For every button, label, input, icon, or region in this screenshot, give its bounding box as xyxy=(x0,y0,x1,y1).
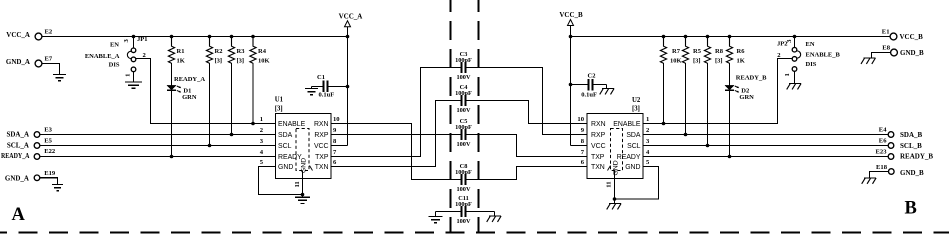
svg-text:C2: C2 xyxy=(588,72,596,79)
wire JP1 pin2 to ENABLE row xyxy=(136,59,276,124)
jumper JP1 xyxy=(123,36,148,77)
svg-text:TXP: TXP xyxy=(591,154,605,161)
svg-text:ENABLE: ENABLE xyxy=(278,121,306,128)
node GND_B right label xyxy=(900,49,924,57)
wire U1 GND net xyxy=(259,167,305,197)
op-amp U1 box xyxy=(275,97,331,179)
svg-text:100pF: 100pF xyxy=(455,124,472,131)
svg-text:[3]: [3] xyxy=(215,58,223,65)
svg-text:C1: C1 xyxy=(317,74,325,81)
svg-text:R5: R5 xyxy=(693,48,702,55)
svg-text:EN: EN xyxy=(110,42,119,49)
svg-text:READY_B: READY_B xyxy=(900,153,933,161)
resistor R4 xyxy=(250,35,270,65)
connector E5 xyxy=(34,137,52,148)
chassis ground E18 xyxy=(862,178,876,184)
junction C2 node xyxy=(569,83,573,87)
node VCC_B right label xyxy=(900,33,924,41)
node SDA_B label xyxy=(900,131,923,139)
svg-text:[3]: [3] xyxy=(632,105,640,112)
svg-text:0.1uF: 0.1uF xyxy=(319,92,335,99)
wire SCL_A row xyxy=(40,145,276,147)
svg-text:RXN: RXN xyxy=(314,121,329,128)
svg-text:A: A xyxy=(12,205,26,225)
svg-text:10: 10 xyxy=(333,116,340,123)
node SCL_B label xyxy=(900,142,922,150)
wire RXN to C8 xyxy=(331,124,461,180)
svg-text:VCC_A: VCC_A xyxy=(6,31,30,39)
wire R4 to ENABLE row xyxy=(251,63,255,125)
U2 pin numbers left xyxy=(577,116,584,166)
wire VCC_B down to U2 VCC xyxy=(571,37,588,146)
svg-text:100V: 100V xyxy=(457,218,471,225)
junction JP2 enable xyxy=(0,0,1,1)
node SDA_A label xyxy=(6,131,29,139)
resistor R3 xyxy=(228,35,245,65)
svg-text:1: 1 xyxy=(784,73,791,76)
connector E6 xyxy=(879,138,894,149)
svg-text:U1: U1 xyxy=(275,97,284,104)
node READY_B right label xyxy=(900,153,933,161)
svg-text:JP1: JP1 xyxy=(137,36,147,43)
capacitor C1 xyxy=(312,74,348,99)
node GND_A left label xyxy=(6,58,30,66)
svg-text:SDA_A: SDA_A xyxy=(6,131,29,139)
wire TXN to C4 xyxy=(331,101,461,167)
svg-text:[3]: [3] xyxy=(693,58,701,65)
ground E19 xyxy=(52,185,63,191)
svg-text:100V: 100V xyxy=(457,141,471,148)
svg-text:R8: R8 xyxy=(715,48,724,55)
label section A xyxy=(12,205,26,225)
svg-text:GND: GND xyxy=(625,164,640,171)
svg-text:1K: 1K xyxy=(737,58,745,65)
svg-text:READY: READY xyxy=(617,154,641,161)
svg-text:READY: READY xyxy=(278,154,302,161)
connector E3 xyxy=(34,127,52,138)
svg-text:E19: E19 xyxy=(44,170,56,177)
connector E22 xyxy=(34,148,56,159)
capacitor C5 xyxy=(455,118,472,148)
svg-text:VCC_B: VCC_B xyxy=(559,11,583,19)
wire C8 to TXN_B xyxy=(466,167,587,180)
svg-text:10: 10 xyxy=(577,116,584,123)
svg-text:SCL: SCL xyxy=(278,143,292,150)
capacitor C3 xyxy=(455,51,472,81)
connector E19 xyxy=(34,170,56,181)
wire C5 to TXP_B xyxy=(466,135,587,157)
wire SDA_B row xyxy=(643,134,888,136)
wire R6 to LED xyxy=(729,63,731,85)
svg-text:100pF: 100pF xyxy=(455,57,472,64)
svg-text:10K: 10K xyxy=(258,58,270,65)
ground C1 xyxy=(305,89,318,95)
svg-text:VCC_B: VCC_B xyxy=(900,33,924,41)
connector E7 xyxy=(35,56,53,67)
U1 pin numbers right xyxy=(333,116,340,166)
wire VCC_A down to U1 VCC xyxy=(331,37,348,146)
svg-text:R6: R6 xyxy=(737,48,746,55)
wire RXP to C5 xyxy=(331,134,461,136)
svg-text:E23: E23 xyxy=(876,149,888,156)
svg-text:GRN: GRN xyxy=(182,94,197,101)
svg-text:E4: E4 xyxy=(879,127,887,134)
svg-text:R3: R3 xyxy=(237,48,246,55)
junction VCC_A rail xyxy=(346,35,350,39)
svg-text:RXP: RXP xyxy=(314,132,329,139)
svg-text:RXN: RXN xyxy=(591,121,606,128)
junction C1 node xyxy=(346,85,350,89)
svg-text:R7: R7 xyxy=(672,48,681,55)
chassis ground U2 xyxy=(607,204,621,210)
isolation barrier line left xyxy=(450,0,452,233)
node READY_A label xyxy=(174,76,205,83)
svg-text:SCL_B: SCL_B xyxy=(900,142,922,150)
svg-text:E18: E18 xyxy=(876,164,888,171)
isolation barrier line right xyxy=(478,0,480,233)
U2 thermal pad xyxy=(608,129,623,176)
svg-text:READY_A: READY_A xyxy=(1,152,30,160)
svg-text:E22: E22 xyxy=(44,148,56,155)
connector E18 xyxy=(876,164,894,174)
wire JP2 pin1 to chassis xyxy=(794,71,796,83)
svg-text:[3]: [3] xyxy=(715,58,723,65)
svg-text:E7: E7 xyxy=(45,56,53,63)
chassis ground C2 xyxy=(600,89,614,95)
resistor R6 xyxy=(726,35,745,65)
U2 pin names left xyxy=(591,121,606,171)
wire E7 to ground xyxy=(42,64,60,75)
resistor R2 xyxy=(206,35,222,65)
svg-text:E8: E8 xyxy=(882,44,890,51)
power VCC_A xyxy=(339,12,363,36)
wire C3 to RXP_B xyxy=(466,68,587,135)
jumper JP2 xyxy=(777,37,801,77)
wire R3 to SDA row xyxy=(230,63,234,136)
wire R7 to ENABLE row xyxy=(662,63,666,125)
svg-text:VCC_A: VCC_A xyxy=(339,12,363,20)
connector E2 xyxy=(35,29,53,40)
wire E8 to chassis xyxy=(872,53,891,59)
resistor R7 xyxy=(660,35,681,65)
U2 pin numbers right xyxy=(646,116,650,166)
wire VCC_A rail A xyxy=(42,36,348,38)
power VCC_B xyxy=(559,11,583,36)
svg-text:SDA: SDA xyxy=(278,132,293,139)
svg-text:0.1uF: 0.1uF xyxy=(581,91,597,98)
svg-text:100pF: 100pF xyxy=(455,169,472,176)
U1 pin names left xyxy=(278,121,306,171)
label DIS (JP2) xyxy=(806,61,817,68)
label EN (JP1) xyxy=(110,42,119,49)
wire READY_A row xyxy=(40,156,276,158)
ground U1 xyxy=(295,197,310,203)
svg-text:100V: 100V xyxy=(457,186,471,193)
label DIS (JP1) xyxy=(109,61,120,68)
resistor R1 xyxy=(168,35,184,65)
svg-text:B: B xyxy=(905,199,917,219)
wire JP1 pin1 to ground xyxy=(133,72,135,82)
wire VCC_B rail xyxy=(571,36,891,38)
svg-text:E5: E5 xyxy=(44,137,52,144)
svg-text:TXP: TXP xyxy=(315,154,329,161)
wire C4 to RXN_B xyxy=(466,101,587,124)
U2 pin names right xyxy=(613,121,641,171)
svg-text:SDA: SDA xyxy=(626,132,641,139)
wire READY_B row xyxy=(643,156,888,158)
svg-text:10K: 10K xyxy=(670,58,682,65)
chassis ground C11 right xyxy=(487,216,501,222)
ground JP1 xyxy=(125,82,142,88)
svg-text:RXP: RXP xyxy=(591,132,606,139)
capacitor C8 xyxy=(455,163,472,193)
capacitor C4 xyxy=(455,84,472,114)
chassis ground JP2 xyxy=(787,84,801,90)
svg-text:[3]: [3] xyxy=(275,105,283,112)
op-amp U2 box xyxy=(587,97,643,179)
svg-text:E3: E3 xyxy=(44,127,52,134)
svg-text:GRN: GRN xyxy=(739,94,754,101)
ground C11 left xyxy=(429,217,443,223)
svg-text:VCC: VCC xyxy=(591,143,606,150)
wire R8 to SCL row xyxy=(706,63,710,147)
label EN (JP2) xyxy=(806,41,815,48)
svg-text:U2: U2 xyxy=(632,97,641,104)
wire R2 to SCL row xyxy=(208,63,212,147)
node READY_B label xyxy=(736,75,767,82)
svg-text:E1: E1 xyxy=(882,29,890,36)
svg-text:R1: R1 xyxy=(177,48,185,55)
svg-text:ENABLE_A: ENABLE_A xyxy=(85,53,120,60)
svg-text:VCC: VCC xyxy=(314,143,329,150)
svg-text:E6: E6 xyxy=(879,138,887,145)
connector E4 xyxy=(879,127,894,138)
svg-text:1: 1 xyxy=(260,116,263,123)
node READY_A left label xyxy=(1,152,30,160)
wire E19 to ground xyxy=(40,178,58,185)
svg-text:ENABLE: ENABLE xyxy=(613,121,641,128)
svg-text:1: 1 xyxy=(125,74,132,77)
svg-text:GND_B: GND_B xyxy=(900,49,924,57)
U1 thermal pad xyxy=(296,129,313,174)
svg-text:READY_B: READY_B xyxy=(736,75,767,82)
label section B xyxy=(905,199,917,219)
svg-text:EN: EN xyxy=(806,41,815,48)
node GND_A lower label xyxy=(5,174,29,182)
node GND_B lower label xyxy=(900,169,924,177)
svg-text:11: 11 xyxy=(294,181,301,187)
svg-text:1K: 1K xyxy=(177,58,185,65)
svg-text:GND_A: GND_A xyxy=(5,174,29,182)
U1 pin numbers left xyxy=(260,116,264,166)
wire JP2 pin2 to ENABLE row xyxy=(643,59,792,124)
svg-text:11: 11 xyxy=(606,181,613,187)
capacitor C11 xyxy=(455,195,472,225)
wire C11 left xyxy=(436,212,461,217)
junction JP2 top xyxy=(793,35,797,39)
node SCL_A label xyxy=(7,141,29,149)
wire TXP to C3 xyxy=(331,68,461,157)
border dashed bottom xyxy=(0,232,949,234)
junction JP1 top xyxy=(132,35,136,39)
capacitor C2 xyxy=(571,72,607,98)
svg-text:SCL_A: SCL_A xyxy=(7,141,29,149)
svg-text:100V: 100V xyxy=(457,74,471,81)
resistor R8 xyxy=(704,35,723,65)
resistor R5 xyxy=(682,35,701,65)
svg-text:[3]: [3] xyxy=(237,58,245,65)
wire R1 to LED xyxy=(171,63,173,85)
U2 pin 11 xyxy=(606,171,615,204)
svg-text:100pF: 100pF xyxy=(455,201,472,208)
wire E18 to chassis xyxy=(870,172,889,178)
svg-text:GND_A: GND_A xyxy=(6,58,30,66)
svg-text:SCL: SCL xyxy=(627,143,641,150)
svg-text:TXN: TXN xyxy=(591,164,605,171)
svg-text:GND: GND xyxy=(278,164,293,171)
connector E8 xyxy=(882,44,897,56)
svg-text:DIS: DIS xyxy=(109,61,120,68)
wire C11 right xyxy=(466,212,494,217)
wire D1 to READY row xyxy=(170,90,174,158)
svg-text:GND: GND xyxy=(613,160,620,175)
svg-text:R2: R2 xyxy=(215,48,223,55)
junction VCC_B rail xyxy=(569,35,573,39)
svg-text:GND_B: GND_B xyxy=(900,169,924,177)
svg-text:100V: 100V xyxy=(457,107,471,114)
chassis ground E8 xyxy=(861,58,875,64)
connector E1 xyxy=(882,29,897,40)
wire SCL_B row xyxy=(643,145,888,147)
svg-text:TXN: TXN xyxy=(315,164,329,171)
svg-text:DIS: DIS xyxy=(806,61,817,68)
ground E7 xyxy=(53,75,66,81)
svg-text:100pF: 100pF xyxy=(455,90,472,97)
LED D1 xyxy=(167,85,197,101)
node VCC_A left label xyxy=(6,31,30,39)
U1 pin 11 xyxy=(294,171,303,198)
wire R5 to SDA row xyxy=(684,63,688,136)
svg-text:READY_A: READY_A xyxy=(174,76,205,83)
wire SDA_A row xyxy=(40,134,276,136)
label ENABLE_A xyxy=(85,53,120,60)
svg-text:SDA_B: SDA_B xyxy=(900,131,923,139)
svg-text:1: 1 xyxy=(646,116,649,123)
wire U2 GND net xyxy=(613,167,659,201)
U1 pin names right xyxy=(314,121,329,171)
svg-text:E2: E2 xyxy=(45,29,53,36)
svg-text:GND: GND xyxy=(301,158,308,173)
connector E23 xyxy=(876,149,894,160)
label ENABLE_B xyxy=(806,51,841,58)
wire D2 to READY row xyxy=(728,90,732,158)
svg-text:R4: R4 xyxy=(258,48,267,55)
svg-text:ENABLE_B: ENABLE_B xyxy=(806,51,841,58)
LED D2 xyxy=(725,85,754,101)
